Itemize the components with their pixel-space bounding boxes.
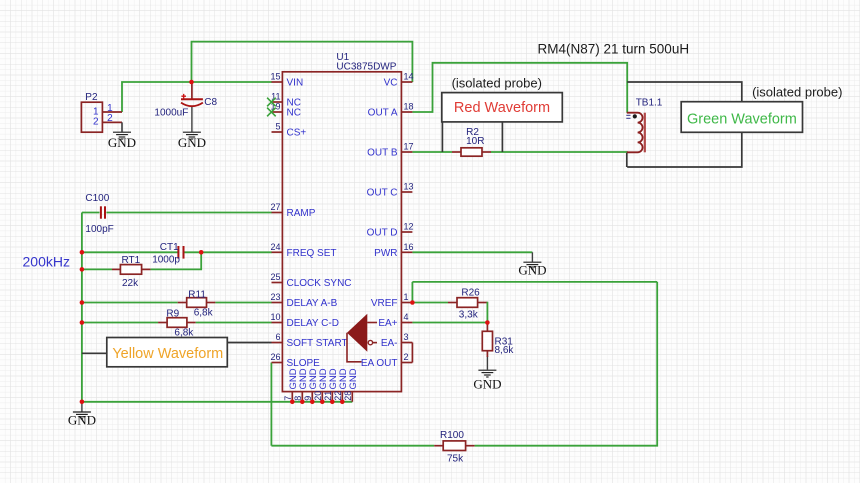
svg-text:VC: VC (384, 78, 398, 89)
svg-text:18: 18 (404, 102, 414, 112)
svg-text:Red Waveform: Red Waveform (454, 100, 550, 116)
svg-text:6,8k: 6,8k (194, 308, 214, 319)
svg-text:R9: R9 (166, 309, 179, 320)
svg-text:GND: GND (178, 135, 206, 150)
svg-text:RAMP: RAMP (287, 208, 316, 219)
svg-text:2: 2 (107, 113, 113, 124)
svg-text:GND: GND (348, 368, 359, 389)
svg-text:75k: 75k (447, 453, 464, 464)
svg-text:16: 16 (404, 242, 414, 252)
svg-text:5: 5 (275, 122, 280, 132)
svg-text:PWR: PWR (374, 248, 397, 259)
svg-text:200kHz: 200kHz (23, 254, 70, 270)
svg-text:22: 22 (333, 391, 343, 401)
svg-text:GND: GND (108, 135, 136, 150)
svg-text:12: 12 (404, 222, 414, 232)
svg-text:10: 10 (270, 312, 280, 322)
svg-text:GND: GND (518, 263, 546, 278)
svg-text:SOFT START: SOFT START (287, 338, 348, 349)
svg-text:3,3k: 3,3k (459, 310, 479, 321)
svg-text:7: 7 (283, 396, 293, 401)
svg-text:DELAY A-B: DELAY A-B (287, 298, 338, 309)
svg-text:OUT A: OUT A (368, 108, 398, 119)
svg-text:C100: C100 (85, 193, 109, 204)
svg-text:1000uF: 1000uF (154, 108, 188, 119)
svg-text:GND: GND (68, 413, 96, 428)
svg-text:4: 4 (404, 312, 409, 322)
svg-text:OUT B: OUT B (367, 148, 398, 159)
svg-text:DELAY C-D: DELAY C-D (287, 318, 339, 329)
svg-text:6: 6 (275, 332, 280, 342)
svg-text:8,6k: 8,6k (495, 345, 515, 356)
svg-text:RT1: RT1 (122, 255, 141, 266)
svg-text:CLOCK SYNC: CLOCK SYNC (287, 278, 352, 289)
svg-text:1000p: 1000p (152, 254, 180, 265)
svg-text:UC3875DWP: UC3875DWP (336, 62, 396, 73)
svg-text:EA-: EA- (381, 338, 398, 349)
svg-text:FREQ SET: FREQ SET (287, 248, 337, 259)
svg-text:10R: 10R (466, 136, 484, 147)
svg-text:24: 24 (270, 242, 280, 252)
svg-text:NC: NC (287, 108, 301, 119)
svg-text:OUT D: OUT D (367, 228, 398, 239)
svg-text:GND: GND (473, 377, 501, 392)
svg-text:EA OUT: EA OUT (361, 358, 398, 369)
svg-text:9: 9 (303, 396, 313, 401)
svg-text:100pF: 100pF (85, 224, 113, 235)
svg-text:(isolated probe): (isolated probe) (452, 75, 542, 90)
svg-text:13: 13 (404, 182, 414, 192)
svg-text:Yellow Waveform: Yellow Waveform (112, 346, 223, 362)
svg-text:P2: P2 (85, 92, 98, 103)
svg-text:2: 2 (93, 117, 99, 128)
svg-text:R100: R100 (440, 430, 464, 441)
svg-text:OUT C: OUT C (367, 188, 398, 199)
svg-text:14: 14 (404, 72, 414, 82)
svg-text:3: 3 (404, 332, 409, 342)
svg-text:2: 2 (404, 352, 409, 362)
svg-text:28: 28 (343, 391, 353, 401)
svg-text:EA+: EA+ (378, 318, 397, 329)
svg-text:(isolated probe): (isolated probe) (752, 85, 842, 100)
svg-text:TB1.1: TB1.1 (636, 97, 663, 108)
svg-text:17: 17 (404, 142, 414, 152)
svg-text:R26: R26 (461, 287, 480, 298)
svg-text:1: 1 (404, 292, 409, 302)
svg-text:23: 23 (270, 292, 280, 302)
svg-text:8: 8 (293, 396, 303, 401)
svg-text:26: 26 (270, 352, 280, 362)
svg-text:CT1: CT1 (160, 242, 179, 253)
svg-text:25: 25 (270, 272, 280, 282)
svg-text:R11: R11 (188, 289, 206, 300)
svg-text:SLOPE: SLOPE (287, 358, 321, 369)
svg-text:27: 27 (270, 202, 280, 212)
svg-text:C8: C8 (204, 97, 217, 108)
svg-text:15: 15 (270, 72, 280, 82)
svg-text:VREF: VREF (371, 298, 398, 309)
svg-text:VIN: VIN (287, 78, 304, 89)
svg-text:Green Waveform: Green Waveform (687, 111, 797, 127)
svg-text:20: 20 (313, 391, 323, 401)
svg-text:21: 21 (323, 391, 333, 401)
svg-text:22k: 22k (122, 278, 139, 289)
svg-text:CS+: CS+ (287, 128, 307, 139)
svg-text:RM4(N87) 21 turn 500uH: RM4(N87) 21 turn 500uH (538, 42, 690, 57)
